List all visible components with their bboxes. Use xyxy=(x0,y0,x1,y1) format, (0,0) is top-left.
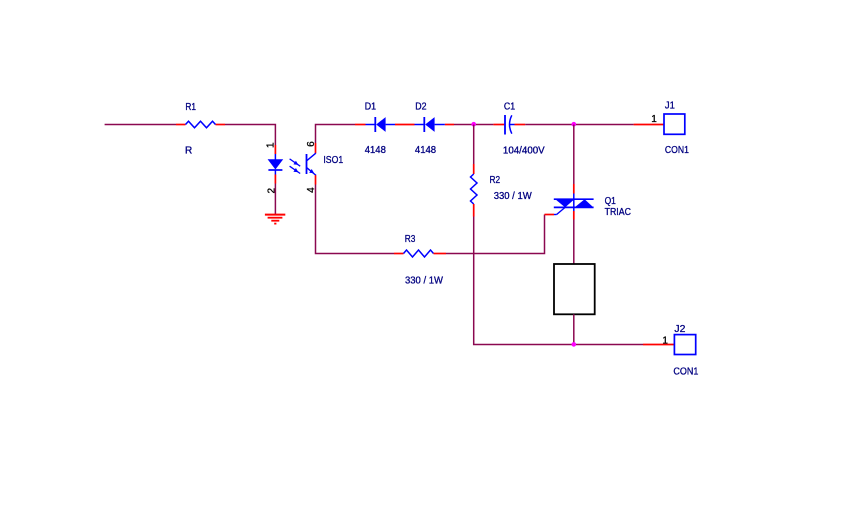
wire ISO collector up and right to D1 xyxy=(316,125,356,144)
wire R2 down to bottom rail xyxy=(474,217,643,345)
wire triac to load box xyxy=(573,220,575,265)
svg-text:4148: 4148 xyxy=(365,145,387,156)
svg-text:J2: J2 xyxy=(674,324,685,335)
svg-text:Q1: Q1 xyxy=(605,196,617,207)
triac Q1 gate pin xyxy=(545,214,555,216)
svg-text:CON1: CON1 xyxy=(665,145,689,156)
svg-text:1: 1 xyxy=(662,336,668,347)
wire node down through R2 xyxy=(473,125,475,165)
svg-text:R3: R3 xyxy=(405,234,416,245)
svg-text:R2: R2 xyxy=(490,175,501,186)
node junction dot right xyxy=(572,122,577,127)
svg-text:C1: C1 xyxy=(504,102,516,113)
connector J1 CON1 xyxy=(651,100,689,156)
svg-text:1: 1 xyxy=(651,114,657,125)
wire top-left input xyxy=(105,124,176,126)
bottom junction dot xyxy=(572,342,577,347)
wire R3 to triac gate xyxy=(446,215,545,254)
light arrow 2 xyxy=(290,166,301,173)
svg-text:104/400V: 104/400V xyxy=(503,145,545,156)
opto-coupler ISO1 phototransistor xyxy=(307,143,344,185)
svg-text:R: R xyxy=(185,145,192,156)
capacitor C1 xyxy=(493,102,545,157)
load rectangle xyxy=(554,264,595,314)
wire D2 to node xyxy=(445,124,454,126)
LED of optocoupler (anode pin 1) xyxy=(268,145,282,184)
node junction dot left xyxy=(471,122,476,127)
wire D1 to D2 xyxy=(395,124,415,126)
svg-text:D2: D2 xyxy=(415,102,427,113)
resistor R1 xyxy=(176,102,225,156)
svg-text:4148: 4148 xyxy=(415,145,437,156)
wire ISO emitter down to R3 row xyxy=(316,185,395,254)
wire R1 to LED anode corner xyxy=(225,125,275,146)
diode D1 4148 xyxy=(355,102,395,157)
connector J1 pin stub xyxy=(634,124,664,126)
svg-text:330 / 1W: 330 / 1W xyxy=(494,191,533,202)
svg-text:J1: J1 xyxy=(665,100,675,111)
svg-text:1: 1 xyxy=(266,142,277,148)
svg-text:ISO1: ISO1 xyxy=(323,155,343,166)
svg-text:D1: D1 xyxy=(365,102,377,113)
svg-text:330 / 1W: 330 / 1W xyxy=(405,276,444,287)
svg-text:TRIAC: TRIAC xyxy=(605,207,631,218)
resistor R3 xyxy=(394,234,446,287)
light arrow 1 xyxy=(290,159,301,166)
wire C1 to J1 xyxy=(525,124,633,126)
ground xyxy=(265,215,285,224)
wire node down to triac xyxy=(573,125,575,185)
svg-text:CON1: CON1 xyxy=(673,367,698,378)
svg-text:R1: R1 xyxy=(185,102,196,113)
wire LED cathode to ground xyxy=(274,184,276,215)
triac Q1 xyxy=(554,184,631,220)
connector J2 pin stub xyxy=(643,344,674,346)
connector J2 CON1 xyxy=(662,324,698,378)
diode D2 4148 xyxy=(415,102,445,157)
wire load box to bottom rail xyxy=(573,314,575,344)
resistor R2 xyxy=(471,164,533,217)
